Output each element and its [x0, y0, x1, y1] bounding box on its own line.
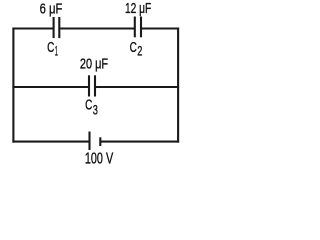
wire: bottom right segment	[100, 141, 179, 143]
svg-text:20 μF: 20 μF	[80, 55, 108, 72]
svg-text:3: 3	[93, 102, 98, 118]
wire: left vertical	[12, 28, 14, 143]
capacitor C2	[135, 17, 141, 38]
svg-text:12 μF: 12 μF	[125, 0, 151, 17]
svg-text:2: 2	[137, 43, 142, 59]
wire: top right segment	[141, 27, 179, 29]
capacitor C3	[89, 75, 95, 96]
wire: middle right segment	[95, 86, 179, 88]
wire: middle left segment	[12, 86, 89, 88]
battery 100 V	[90, 132, 101, 151]
wire: top left segment	[12, 27, 53, 29]
svg-text:1: 1	[55, 42, 58, 58]
svg-text:C: C	[85, 96, 92, 113]
capacitor C1	[54, 17, 60, 38]
svg-text:C: C	[130, 39, 137, 56]
wire: top middle segment	[59, 27, 135, 29]
svg-text:100 V: 100 V	[85, 151, 114, 168]
svg-text:C: C	[47, 39, 54, 56]
wire: bottom left segment	[12, 141, 89, 143]
svg-text:6 μF: 6 μF	[40, 0, 63, 17]
wire: right vertical	[177, 28, 179, 143]
